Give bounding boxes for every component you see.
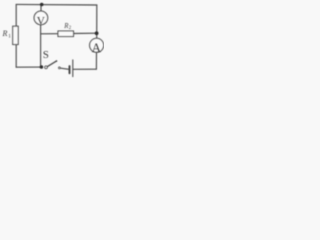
battery long plate — [72, 60, 74, 77]
svg-text:S: S — [43, 49, 49, 61]
wire top — [16, 3, 97, 6]
ammeter A — [90, 38, 104, 52]
svg-text:A: A — [92, 40, 102, 55]
resistor R1 — [13, 26, 19, 44]
wire middle vertical — [40, 25, 42, 67]
wire R2 left — [41, 33, 58, 35]
wire R2 right — [74, 32, 97, 34]
wire right lower — [95, 52, 97, 69]
wire left upper — [15, 4, 17, 26]
switch lever — [47, 61, 56, 67]
svg-text:1: 1 — [8, 33, 11, 39]
svg-text:R: R — [2, 29, 8, 38]
junction dot bottom — [40, 65, 44, 69]
wire voltmeter stub top — [40, 5, 42, 12]
wire left lower — [15, 45, 17, 68]
switch lever tip knob — [56, 60, 58, 62]
switch fixed contact — [59, 67, 61, 69]
switch pivot contact — [45, 66, 48, 69]
wire bottom right — [73, 68, 96, 70]
voltmeter V — [34, 11, 48, 25]
wire bottom left — [16, 66, 41, 68]
battery short plate — [69, 66, 71, 73]
wire right upper — [96, 5, 98, 38]
junction dot top — [40, 3, 44, 7]
wire battery to switch — [60, 68, 69, 69]
svg-text:V: V — [37, 15, 46, 27]
junction dot right — [95, 31, 99, 35]
resistor R2 — [58, 31, 74, 37]
